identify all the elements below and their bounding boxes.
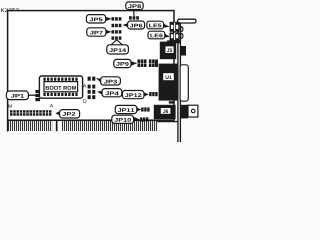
- BNC jack through bracket: [180, 105, 198, 119]
- jumper row A (JP5): [112, 17, 122, 20]
- jumper JP11: [141, 107, 149, 111]
- board background: [0, 0, 200, 150]
- label M: [8, 104, 11, 107]
- key bar in notch: [56, 121, 58, 131]
- component between U1 and J6: [169, 101, 174, 103]
- label JP2: [55, 110, 79, 118]
- label JP3: [96, 77, 121, 85]
- LED LE5 body: [170, 22, 180, 32]
- label A: [83, 84, 86, 87]
- jumper JP12: [149, 92, 157, 96]
- component C near U1 top: [155, 61, 158, 67]
- label JP12: [122, 91, 148, 99]
- board left edge extension: [7, 120, 9, 132]
- jumper row B (JP6): [112, 24, 122, 27]
- label JP10: [112, 115, 140, 123]
- jumper JP8: [129, 16, 139, 19]
- label JP8: [126, 2, 143, 16]
- jumper row C (JP7): [112, 30, 122, 33]
- label JP7: [87, 28, 112, 36]
- edge connector fingers left segment: [8, 121, 52, 131]
- jumper for JP3: [88, 77, 96, 81]
- jumper array M-A: [10, 110, 52, 116]
- connector J5: [160, 42, 186, 60]
- jumper JP1 vertical: [35, 90, 40, 101]
- board outline: [8, 11, 174, 121]
- DB15 shell through bracket: [180, 65, 188, 101]
- jumper grid for JP4: [88, 85, 96, 100]
- jumper array JP9: [138, 59, 158, 67]
- bracket strip: [178, 21, 181, 142]
- bracket top tab: [178, 19, 196, 23]
- label JP5: [86, 15, 111, 23]
- label JP9: [114, 59, 137, 67]
- label JP1: [6, 91, 35, 100]
- LED LE5 bump through bracket: [181, 27, 183, 32]
- filter bar under LEDs: [167, 40, 180, 43]
- edge connector fingers right segment: [62, 121, 157, 131]
- LED LE6 body: [170, 32, 180, 40]
- label LE6: [148, 31, 170, 39]
- LED LE6 bump through bracket: [181, 33, 183, 38]
- label LE5: [147, 21, 170, 29]
- jumper JP10: [140, 117, 148, 121]
- label A (array right): [50, 104, 53, 107]
- boot rom socket: [39, 76, 82, 98]
- label JP11: [115, 105, 141, 113]
- label JP14 with fork: [107, 40, 129, 54]
- board bottom edge thick line: [7, 119, 157, 121]
- label JP6: [123, 21, 145, 29]
- label JP4: [97, 89, 122, 97]
- title K2353: [1, 8, 19, 12]
- jumper row D (JP14): [112, 36, 122, 39]
- label D: [83, 99, 86, 102]
- connector J6: [154, 105, 176, 119]
- connector U1: [159, 64, 178, 101]
